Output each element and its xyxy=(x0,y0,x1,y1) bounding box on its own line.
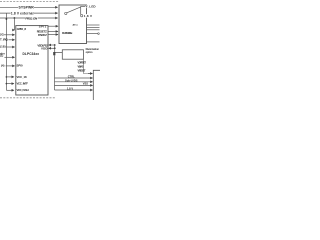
svg-text:VBIAS: VBIAS xyxy=(78,64,84,68)
svg-text:2C: 2C xyxy=(0,32,5,36)
svg-text:VCC_18: VCC_18 xyxy=(17,75,27,79)
svg-text:VCC_FLSH: VCC_FLSH xyxy=(17,88,29,92)
svg-text:(1): (1) xyxy=(0,53,3,57)
svg-text:optics: optics xyxy=(86,51,94,54)
svg-text:CTRL: CTRL xyxy=(68,74,75,78)
svg-text:1.8 V: 1.8 V xyxy=(84,14,92,18)
svg-text:VSS: VSS xyxy=(83,81,88,85)
svg-text:Sub-LVDS: Sub-LVDS xyxy=(65,78,78,82)
svg-text:SPI0: SPI0 xyxy=(17,63,24,67)
svg-text:VOFFSET: VOFFSET xyxy=(78,61,87,65)
svg-text:(4): (4) xyxy=(1,64,5,68)
svg-text:DLPA200x: DLPA200x xyxy=(62,31,73,35)
svg-text:T_IRQ: T_IRQ xyxy=(0,37,9,41)
svg-text:1.8 V external: 1.8 V external xyxy=(11,11,34,15)
svg-text:VDD: VDD xyxy=(41,47,48,51)
svg-text:GPIO_8: GPIO_8 xyxy=(17,27,27,31)
svg-text:SPI1: SPI1 xyxy=(39,24,47,28)
svg-text:VRESET: VRESET xyxy=(78,69,86,73)
svg-text:DLPC34xx: DLPC34xx xyxy=(23,52,40,56)
svg-text:AVxx: AVxx xyxy=(73,23,79,26)
svg-text:PROJ_ON: PROJ_ON xyxy=(25,17,38,21)
svg-text:1.8 V: 1.8 V xyxy=(67,86,73,90)
svg-text:SYSPWR: SYSPWR xyxy=(19,5,35,9)
svg-text:PARKZ: PARKZ xyxy=(38,33,47,37)
svg-text:(18): (18) xyxy=(0,45,6,49)
svg-text:V_LED: V_LED xyxy=(86,5,97,9)
svg-text:VCC_INTF: VCC_INTF xyxy=(17,81,29,85)
